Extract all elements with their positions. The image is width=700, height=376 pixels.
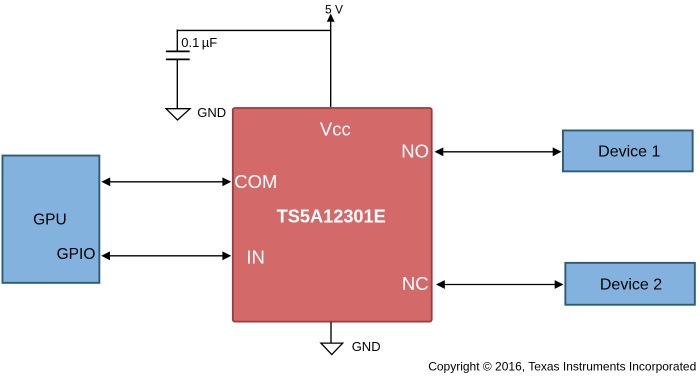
wire 5V vertical to Vcc pin bbox=[330, 21, 332, 107]
wire IC to bottom ground bbox=[330, 322, 332, 343]
wire NO bidirectional arrow bbox=[435, 147, 562, 156]
IC U1 TS5A12301E body bbox=[233, 108, 432, 322]
svg-text:Device 1: Device 1 bbox=[598, 143, 660, 160]
wire capacitor top lead bbox=[176, 30, 178, 51]
svg-text:TS5A12301E: TS5A12301E bbox=[277, 206, 386, 226]
svg-text:µF: µF bbox=[202, 35, 217, 50]
block GPU bbox=[2, 156, 99, 283]
wire IN bidirectional arrow bbox=[101, 251, 231, 260]
svg-text:COM: COM bbox=[234, 171, 277, 192]
svg-text:NC: NC bbox=[402, 273, 429, 294]
wire NC bidirectional arrow bbox=[436, 280, 564, 289]
svg-text:GPIO: GPIO bbox=[57, 246, 96, 263]
power arrow 5V bbox=[327, 14, 335, 22]
svg-text:5 V: 5 V bbox=[325, 2, 343, 16]
ground symbol below IC bbox=[321, 343, 343, 355]
wire horizontal branch to capacitor bbox=[177, 29, 331, 31]
svg-text:0.1: 0.1 bbox=[181, 35, 199, 50]
capacitor C1 bbox=[166, 50, 190, 52]
svg-text:GND: GND bbox=[197, 105, 226, 120]
wire COM bidirectional arrow bbox=[101, 177, 231, 186]
svg-text:GPU: GPU bbox=[33, 211, 67, 228]
block Device 2 bbox=[565, 263, 695, 305]
svg-text:Device 2: Device 2 bbox=[600, 277, 662, 294]
svg-text:Copyright © 2016, Texas Instru: Copyright © 2016, Texas Instruments Inco… bbox=[428, 359, 696, 373]
block Device 1 bbox=[563, 130, 693, 171]
svg-text:Vcc: Vcc bbox=[320, 119, 351, 140]
svg-text:GND: GND bbox=[352, 339, 381, 354]
svg-text:IN: IN bbox=[246, 247, 265, 268]
ground symbol at capacitor bbox=[166, 109, 190, 120]
wire capacitor bottom lead bbox=[176, 60, 178, 108]
svg-text:NO: NO bbox=[401, 140, 429, 161]
